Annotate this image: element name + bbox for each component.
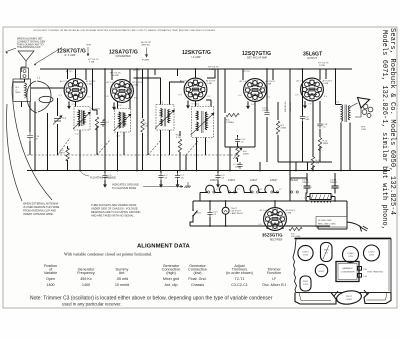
svg-text:SW-1: SW-1 xyxy=(196,213,202,215)
resistor R-2 xyxy=(59,148,70,161)
resistor R-10 xyxy=(318,138,328,151)
svg-text:4 MA: 4 MA xyxy=(89,61,95,64)
svg-text:HT VO: HT VO xyxy=(133,70,140,72)
svg-text:RECTIFIER: RECTIFIER xyxy=(270,238,283,241)
IF transformer T-2 (dashed box) xyxy=(191,105,215,138)
chassis layout: tube 12SK7 top view right xyxy=(364,245,380,261)
speaker SPK xyxy=(350,98,373,132)
svg-text:CONVERTER: CONVERTER xyxy=(116,55,131,58)
chassis layout: electrolytic can xyxy=(315,264,327,276)
chassis layout: tube 12SA7 top view xyxy=(343,247,359,263)
wire: bottom heater bus xyxy=(190,200,330,227)
capacitor C-16 xyxy=(27,132,40,141)
chassis layout: tube 12SK7 top view xyxy=(298,245,313,260)
svg-text:GT/G: GT/G xyxy=(369,254,375,256)
wire: AVC bus (dashed) xyxy=(27,138,237,155)
capacitor C-5 bypass to ground xyxy=(102,171,112,188)
svg-text:(low): (low) xyxy=(194,271,202,275)
tube label 35L6GT OUTPUT xyxy=(303,51,323,59)
svg-text:20MFD: 20MFD xyxy=(330,182,338,184)
svg-text:HT VO: HT VO xyxy=(243,71,250,73)
svg-text:Float. Gnd.: Float. Gnd. xyxy=(188,277,206,281)
note: trimmer C3 footnote xyxy=(30,296,273,307)
svg-text:Models 6071, 132.826-1, simila: Models 6071, 132.826-1, similar but with… xyxy=(380,30,388,230)
wire: V3 stems xyxy=(180,69,215,171)
svg-text:With variable condenser closed: With variable condenser closed set point… xyxy=(64,252,152,257)
svg-text:455 Kc: 455 Kc xyxy=(80,277,92,281)
svg-text:WHEN EXTERNAL ANTENNA: WHEN EXTERNAL ANTENNA xyxy=(23,202,58,206)
svg-text:22M: 22M xyxy=(145,126,149,128)
chassis layout: front panel right slab xyxy=(364,293,391,304)
filter capacitor C-14B xyxy=(302,173,313,194)
svg-text:W-1080 OHM: W-1080 OHM xyxy=(318,220,332,222)
svg-text:GT/G: GT/G xyxy=(303,254,309,256)
svg-text:2.2MEG: 2.2MEG xyxy=(226,122,234,124)
capacitor C-9 xyxy=(215,171,225,188)
wire: detector area drops xyxy=(218,69,278,171)
resistor R-5 xyxy=(276,121,286,134)
svg-text:35L6GT: 35L6GT xyxy=(290,179,299,182)
switch SW-1 xyxy=(190,209,202,226)
node L.1 label xyxy=(37,78,41,80)
wire: heater rail connections xyxy=(193,193,347,210)
wire: af line xyxy=(278,161,332,163)
svg-text:OUTPUT: OUTPUT xyxy=(307,57,317,60)
svg-text:AT VO: AT VO xyxy=(66,70,73,73)
chassis layout: front panel left slab xyxy=(295,293,336,305)
wire: output area drops xyxy=(290,69,350,171)
svg-text:VIEW AT: VIEW AT xyxy=(141,44,150,47)
svg-text:1268: 1268 xyxy=(361,129,367,131)
table: alignment data columns xyxy=(44,264,287,287)
svg-text:TEST: TEST xyxy=(86,45,92,47)
ALIGNMENT DATA title xyxy=(137,244,191,250)
output transformer T-3 xyxy=(336,102,350,123)
note: antenna wire instruction block xyxy=(17,38,45,50)
svg-text:used in any particular receive: used in any particular receiver. xyxy=(62,302,122,307)
chassis layout: 35Z5 socket xyxy=(300,276,311,291)
wire: grid line antenna to V1 xyxy=(13,79,64,88)
capacitor C-15 xyxy=(207,201,218,226)
svg-text:LIGHT: LIGHT xyxy=(346,299,353,301)
svg-text:Osc.-Mixer R-f: Osc.-Mixer R-f xyxy=(262,283,287,287)
svg-text:GT/G: GT/G xyxy=(348,256,354,258)
trimmer C-1 xyxy=(53,116,67,125)
svg-text:T2-T1: T2-T1 xyxy=(235,277,245,281)
tube V6 35Z5GT/G rectifier socket xyxy=(258,201,296,241)
svg-text:CONDENSER: CONDENSER xyxy=(341,271,355,273)
volume control R-8 xyxy=(233,146,249,159)
svg-text:AND ARE TAKEN WITH NO SIG: AND ARE TAKEN WITH NO SIGNAL. xyxy=(91,214,135,218)
chassis layout: variable condenser xyxy=(336,262,384,282)
svg-text:(in order shown): (in order shown) xyxy=(226,271,253,275)
capacitor C-18 xyxy=(317,122,328,129)
note: alignment instruction sentence xyxy=(64,252,152,257)
svg-text:TO CHASSIS BASE: TO CHASSIS BASE xyxy=(112,186,136,190)
svg-text:Variable: Variable xyxy=(44,271,57,275)
svg-text:12SK7: 12SK7 xyxy=(210,179,218,182)
wire: leader arrow to antenna xyxy=(6,48,63,66)
svg-text:FLOATING GROUND: FLOATING GROUND xyxy=(90,176,116,180)
coil assembly L-2 RF coil (dashed box) xyxy=(73,107,91,136)
pilot lamp xyxy=(222,201,243,226)
tube label 12SK7GT/G R.F. AMP xyxy=(57,45,92,57)
svg-text:READINGS ARE TO FLOATING G: READINGS ARE TO FLOATING GROUND xyxy=(91,210,141,214)
svg-text:180M: 180M xyxy=(323,143,329,145)
svg-text:Chassis: Chassis xyxy=(191,283,204,287)
wire: top supply bus xyxy=(40,68,352,70)
svg-text:12SK7: 12SK7 xyxy=(368,251,375,253)
wire: vertical drops left zone xyxy=(22,69,68,171)
antenna clip xyxy=(21,68,29,79)
svg-text:THE ANTENNA CLIP: THE ANTENNA CLIP xyxy=(17,46,41,49)
svg-text:1MEG: 1MEG xyxy=(59,153,65,155)
svg-text:PILOT: PILOT xyxy=(346,296,353,298)
wire: loop antenna leads sweeping down-left xyxy=(7,81,52,201)
svg-text:ELEC: ELEC xyxy=(319,271,325,273)
svg-text:RES. LINE CORD: RES. LINE CORD xyxy=(318,224,336,226)
svg-text:12SA7: 12SA7 xyxy=(250,179,258,182)
oscillator coil assembly (dashed box) xyxy=(114,109,132,138)
heater string filaments xyxy=(200,179,299,193)
note: blow-up arrow between labels xyxy=(141,42,152,62)
svg-text:20MFD: 20MFD xyxy=(302,182,310,184)
svg-text:Ant.: Ant. xyxy=(119,271,126,275)
tube V5 35L6GT output socket xyxy=(295,63,333,106)
note: indicates ground label with chassis ground symbol xyxy=(112,182,191,190)
note: top instruction line xyxy=(33,29,216,32)
tube label 12SK7GT/G I.F. AMP xyxy=(182,50,211,59)
wire: T-1 connections xyxy=(134,69,185,171)
capacitor C-7 bypass to ground xyxy=(158,171,168,188)
svg-text:UPON FIRST TURNING ON RECEIVER: UPON FIRST TURNING ON RECEIVER ALLOW SEV… xyxy=(33,29,216,32)
svg-text:I-F: I-F xyxy=(272,277,277,281)
node: floating ground label xyxy=(80,171,116,180)
note: margin title line 1 (rotated) xyxy=(388,28,396,215)
antenna xyxy=(18,51,34,72)
resistor R-9 surge xyxy=(289,227,302,238)
capacitor C-8 xyxy=(300,114,310,121)
svg-text:THIS TRIM MTD: THIS TRIM MTD xyxy=(367,272,384,274)
note: margin title line 2 (rotated) xyxy=(380,30,388,230)
svg-text:C-14A: C-14A xyxy=(330,179,337,182)
wire: floating ground bus xyxy=(27,170,390,172)
svg-text:Function: Function xyxy=(267,271,281,275)
svg-text:1400: 1400 xyxy=(46,283,54,287)
svg-text:(high): (high) xyxy=(166,271,175,275)
svg-text:IF AMP: IF AMP xyxy=(142,59,150,62)
svg-text:Ant. clip: Ant. clip xyxy=(164,283,177,287)
svg-text:C3-C2-C1: C3-C2-C1 xyxy=(231,283,248,287)
svg-text:Sears, Roebuck & Co. Models 60: Sears, Roebuck & Co. Models 6050, 132.82… xyxy=(388,28,396,215)
junction dots on buses xyxy=(34,68,342,171)
svg-text:MEG: MEG xyxy=(16,92,21,94)
tube V1 12SK7GT/G RF amp socket xyxy=(59,59,100,106)
svg-text:DET. AVC-AF AMP: DET. AVC-AF AMP xyxy=(247,57,267,60)
filter choke L-4 xyxy=(304,194,335,203)
svg-text:12SK7: 12SK7 xyxy=(228,179,236,182)
resistor R-6 xyxy=(226,113,239,124)
svg-text:35Z5: 35Z5 xyxy=(303,281,309,283)
resistor R-3 osc grid xyxy=(141,119,149,132)
svg-text:Frequency: Frequency xyxy=(77,271,95,275)
tube V4 12SQ7GT/G detector socket xyxy=(238,71,276,106)
antenna coil L-1 box with resistor R-1 xyxy=(13,79,31,102)
capacitor C-12 xyxy=(235,137,246,144)
ground below V1 xyxy=(67,102,71,110)
tube label 12SQ7GT/G DET-AVC-AF AMP xyxy=(242,51,271,60)
resistance line cord box xyxy=(316,217,347,228)
svg-text:Mixer grid: Mixer grid xyxy=(163,277,179,281)
svg-text:ALIGNMENT DATA: ALIGNMENT DATA xyxy=(137,244,191,250)
tube label 12SA7GT/G CONVERTER xyxy=(109,50,138,59)
resistor R-12 cathode xyxy=(311,157,321,170)
svg-text:INSERT ANTENNA WIRE.: INSERT ANTENNA WIRE. xyxy=(23,212,54,216)
resistor R-2 between coils xyxy=(91,109,110,131)
svg-text:12SQ7: 12SQ7 xyxy=(270,179,278,182)
ground below V5 xyxy=(303,101,307,109)
resistor R-4 below T-1 xyxy=(176,135,182,153)
svg-text:C-B: C-B xyxy=(363,276,367,278)
note: tube sockets viewed instruction xyxy=(91,203,141,218)
wire: V1 stems and drops xyxy=(64,69,105,171)
capacitor C-13 electrolytic xyxy=(233,162,243,169)
svg-text:LAMP BULB: LAMP BULB xyxy=(231,212,244,215)
wire: rectifier plate and filter links xyxy=(290,171,347,230)
ground below V4 xyxy=(246,102,250,110)
svg-text:I.F. AMP: I.F. AMP xyxy=(192,56,201,59)
svg-text:.05 mfd: .05 mfd xyxy=(116,277,128,281)
tube V2 12SA7GT/G converter socket xyxy=(105,70,143,107)
svg-text:IS USED REMOVE THIS WIRE: IS USED REMOVE THIS WIRE xyxy=(23,205,60,209)
svg-text:C-A: C-A xyxy=(363,268,367,271)
tube V3 12SK7GT/G IF amp socket xyxy=(179,67,220,106)
vertical pin labels beside V5 xyxy=(284,101,292,112)
svg-text:INDICATES GROUND: INDICATES GROUND xyxy=(112,183,139,187)
svg-text:DYNE: DYNE xyxy=(319,65,326,67)
svg-text:Open: Open xyxy=(46,277,55,281)
chassis layout box xyxy=(293,238,391,292)
svg-text:.00025: .00025 xyxy=(262,110,269,112)
svg-text:1400: 1400 xyxy=(82,283,90,287)
svg-text:500M: 500M xyxy=(243,154,249,156)
svg-text:35Z5GT/G: 35Z5GT/G xyxy=(262,233,283,238)
capacitor C-7 xyxy=(175,171,185,188)
svg-text:GT/G: GT/G xyxy=(303,284,309,286)
ground below V2 xyxy=(112,103,116,111)
IF transformer T-1 (dashed box) xyxy=(155,103,175,131)
svg-text:470M: 470M xyxy=(281,128,287,130)
filter capacitor C-14A xyxy=(330,173,341,194)
svg-text:TUBE SOCKETS ARE VIEWED FR: TUBE SOCKETS ARE VIEWED FROM xyxy=(91,203,136,207)
svg-text:R. F. AMP: R. F. AMP xyxy=(65,54,76,57)
chassis layout: tube 35L6GT top view xyxy=(321,243,333,262)
svg-text:METAL SH: METAL SH xyxy=(284,101,287,112)
svg-text:25MF: 25MF xyxy=(235,167,241,169)
power plug xyxy=(347,222,368,232)
ground below V3 xyxy=(186,101,190,109)
capacitor C-11 xyxy=(262,108,270,115)
svg-text:UNDER SIDE OF CHASSIS - VOL: UNDER SIDE OF CHASSIS - VOLTAGE xyxy=(91,207,138,211)
svg-text:FROM ANTENNA CLIP AND: FROM ANTENNA CLIP AND xyxy=(23,209,56,213)
chassis layout: pilot light xyxy=(334,289,368,305)
svg-text:10 mmfd: 10 mmfd xyxy=(115,283,129,287)
wire: V2 stems and oscillator drops xyxy=(112,69,148,171)
svg-text:12SA7: 12SA7 xyxy=(347,252,354,255)
svg-text:VARIABLE: VARIABLE xyxy=(342,267,353,270)
svg-text:12SK7: 12SK7 xyxy=(302,251,309,253)
note: external antenna instruction xyxy=(23,202,60,217)
loop antenna xyxy=(27,81,53,113)
